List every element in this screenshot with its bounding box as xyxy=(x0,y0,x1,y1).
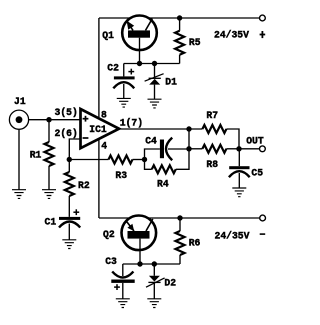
svg-text:1(7): 1(7) xyxy=(120,118,143,129)
transistor Q2 xyxy=(103,216,156,265)
svg-text:R2: R2 xyxy=(78,180,90,191)
ground C5 xyxy=(232,188,246,197)
junction C4 R8 xyxy=(186,146,191,151)
svg-text:R4: R4 xyxy=(157,179,169,190)
svg-text:IC1: IC1 xyxy=(89,124,107,135)
junction node A R3 xyxy=(142,157,147,162)
svg-text:C3: C3 xyxy=(105,256,117,267)
svg-text:C2: C2 xyxy=(107,63,119,74)
terminal positive supply xyxy=(260,15,266,21)
wire pin3 input xyxy=(29,119,81,121)
wire node row feedback xyxy=(69,159,108,161)
svg-text:J1: J1 xyxy=(14,96,26,107)
wire R4 branch lower xyxy=(145,160,152,170)
svg-text:OUT: OUT xyxy=(246,135,264,146)
wire op-amp output row xyxy=(119,128,202,130)
wire pin4 V- drop xyxy=(98,140,100,219)
svg-text:D1: D1 xyxy=(165,76,177,87)
capacitor C3 xyxy=(105,256,135,299)
svg-text:C5: C5 xyxy=(251,168,263,179)
junction bottom rail R6 xyxy=(177,215,182,220)
wire Q1 base row xyxy=(124,63,180,65)
wire Q2 base row xyxy=(123,263,180,265)
svg-text:24/35V: 24/35V xyxy=(215,231,250,242)
ground R1 xyxy=(42,190,56,199)
wire to OUT terminal xyxy=(239,148,259,150)
resistor R8 xyxy=(202,145,226,170)
junction pin3 node xyxy=(46,117,51,122)
junction D1 top xyxy=(152,61,157,66)
svg-text:8: 8 xyxy=(101,110,107,121)
wire R4 right leg xyxy=(176,129,189,169)
svg-text:C4: C4 xyxy=(145,135,157,146)
zener diode D2 xyxy=(146,264,176,299)
wire pin2 input xyxy=(69,139,81,160)
wire C4 to node B xyxy=(168,148,189,150)
wire positive top rail xyxy=(99,17,259,19)
wire R3 to node A xyxy=(133,159,145,161)
svg-text:4: 4 xyxy=(101,140,107,151)
ground C3 xyxy=(116,299,130,308)
svg-text:R5: R5 xyxy=(189,37,201,48)
resistor R3 xyxy=(109,156,133,182)
capacitor C2 xyxy=(107,63,134,99)
resistor R2 xyxy=(65,160,90,217)
svg-text:R1: R1 xyxy=(30,150,42,161)
ground C2 xyxy=(117,98,131,107)
op-amp IC1 xyxy=(81,109,120,148)
ground C1 xyxy=(62,240,76,249)
svg-text:R7: R7 xyxy=(206,110,218,121)
junction Q2 base xyxy=(137,261,142,266)
wire C4 branch upper xyxy=(145,149,160,160)
svg-text:C1: C1 xyxy=(45,216,57,227)
resistor R1 xyxy=(30,120,54,190)
svg-text:2(6): 2(6) xyxy=(55,128,78,139)
svg-text:3(5): 3(5) xyxy=(55,107,78,118)
svg-text:R8: R8 xyxy=(206,159,218,170)
junction OUT node xyxy=(236,146,241,151)
junction top rail R5 xyxy=(177,15,182,20)
terminal OUT xyxy=(260,146,266,152)
junction output R7 xyxy=(186,126,191,131)
capacitor C4 xyxy=(145,135,172,160)
resistor R5 xyxy=(175,18,201,64)
zener diode D1 xyxy=(145,64,178,100)
ground D2 xyxy=(147,299,161,308)
junction D2 top xyxy=(152,261,157,266)
svg-text:Q2: Q2 xyxy=(103,229,115,240)
junction pin2 node xyxy=(67,157,72,162)
connector J1 xyxy=(9,96,28,190)
junction Q1 base xyxy=(137,61,142,66)
transistor Q1 xyxy=(102,16,156,64)
resistor R4 xyxy=(152,165,176,189)
ground J1 xyxy=(12,190,26,199)
svg-text:R6: R6 xyxy=(189,238,201,249)
wire R7 right leg xyxy=(226,129,239,149)
terminal negative supply xyxy=(260,215,266,221)
svg-text:24/35V: 24/35V xyxy=(214,30,249,41)
ground D1 xyxy=(148,99,162,108)
resistor R7 xyxy=(202,110,226,133)
capacitor C5 xyxy=(229,149,263,188)
wire negative bottom rail xyxy=(99,217,260,219)
svg-text:D2: D2 xyxy=(164,278,176,289)
svg-text:Q1: Q1 xyxy=(102,30,114,41)
capacitor C1 xyxy=(45,209,81,240)
wire R8 right xyxy=(226,148,239,150)
svg-text:R3: R3 xyxy=(115,170,127,181)
resistor R6 xyxy=(176,218,201,264)
wire pin8 V+ drop xyxy=(98,18,100,117)
wire R8 left xyxy=(189,148,202,150)
